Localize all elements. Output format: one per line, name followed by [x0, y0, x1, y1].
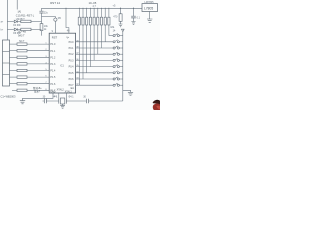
resistor RP1.9 — [108, 8, 110, 35]
resistor R2 — [17, 49, 49, 52]
wire input row 1 — [7, 21, 13, 23]
wire P0 row 2 — [76, 47, 113, 49]
wire P0 row 3 — [76, 53, 113, 55]
capacitor C7 0.1u — [131, 8, 140, 25]
resistor R1 — [17, 43, 49, 46]
svg-text:RST 14: RST 14 — [50, 1, 60, 5]
wire reset node — [42, 15, 56, 17]
svg-text:9: 9 — [52, 31, 54, 33]
wire P1.5 row — [10, 76, 17, 78]
svg-text:D5: D5 — [58, 17, 62, 20]
svg-text:P0.3: P0.3 — [69, 59, 75, 62]
svg-text:a+: a+ — [1, 22, 4, 24]
ground under crystal — [60, 104, 65, 108]
svg-text:P1.5: P1.5 — [50, 76, 56, 79]
svg-text:EA: EA — [71, 87, 75, 90]
svg-text:D4 ΦΦ: D4 ΦΦ — [13, 24, 20, 27]
switch S2 — [113, 40, 123, 43]
wire +5V rail — [42, 7, 143, 9]
wire input row 2 — [7, 29, 13, 31]
svg-text:RST: RST — [52, 36, 58, 40]
switch S1 — [113, 34, 123, 37]
wire left input line — [6, 0, 8, 40]
wire P0 row 5 — [76, 66, 113, 68]
capacitor C6 electrolytic — [113, 8, 122, 27]
resistor RP1.8 — [104, 8, 106, 42]
voltage regulator U2 7805 — [142, 4, 158, 12]
wire P0 row 6 — [76, 72, 113, 74]
svg-text:P0.2: P0.2 — [69, 53, 75, 56]
node common top symbol — [121, 29, 124, 32]
diode D4 — [13, 20, 21, 27]
switch S9 — [113, 83, 123, 86]
ground left — [20, 98, 25, 104]
resistor R12 — [21, 28, 42, 31]
svg-text:9A3 T: 9A3 T — [18, 34, 25, 37]
svg-text:b+: b+ — [1, 30, 4, 32]
svg-text:P1.6: P1.6 — [50, 83, 56, 86]
switch S7 — [113, 71, 123, 74]
svg-text:IC1: IC1 — [60, 64, 65, 67]
svg-text:P0.6: P0.6 — [69, 78, 75, 81]
wire P1.1 row — [10, 50, 17, 52]
switch S8 — [113, 77, 123, 80]
wire crystal rail — [43, 100, 123, 102]
ground under regulator — [147, 12, 152, 23]
wire P1.3 row — [10, 63, 17, 65]
svg-text:L7805: L7805 — [144, 7, 153, 11]
crystal Y1 — [53, 96, 74, 105]
resistor R7 — [17, 82, 49, 85]
svg-text:40: 40 — [67, 31, 70, 33]
svg-text:P1.3: P1.3 — [50, 63, 56, 66]
svg-text:C1• WB2003: C1• WB2003 — [1, 94, 16, 98]
diode D6 — [13, 28, 21, 35]
svg-text:XTAL2: XTAL2 — [57, 88, 65, 91]
wire P1.4 row — [10, 70, 17, 72]
ground right — [128, 92, 133, 95]
wire P0 row 1 — [76, 41, 113, 43]
svg-text:V•: V• — [66, 36, 69, 40]
capacitor C4 30p — [43, 96, 47, 104]
wire P0 row 8 — [76, 84, 113, 86]
watermark logo — [153, 100, 160, 110]
svg-text:Φ4.1: Φ4.1 — [68, 96, 74, 99]
svg-text:1k: 1k — [44, 28, 47, 31]
resistor R4 — [17, 62, 49, 65]
svg-text:[A]: [A] — [18, 11, 21, 14]
resistor RP1.4 — [89, 8, 91, 66]
wire switch common line — [122, 32, 124, 101]
svg-text:XTAL1: XTAL1 — [65, 90, 73, 93]
resistor R11 — [21, 20, 42, 23]
switch S6 — [113, 65, 123, 68]
svg-text:GND: GND — [50, 90, 56, 93]
svg-text:14·: 14· — [113, 29, 117, 32]
capacitor C5 30p — [83, 96, 88, 104]
resistor R5 — [17, 69, 49, 72]
MCU U1 89C51 — [49, 33, 79, 93]
svg-text:基本?: 基本? — [34, 89, 41, 93]
wire Vcc pin 40 stub — [65, 8, 70, 34]
wire P0 row 4 — [76, 59, 113, 61]
resistor R10 — [40, 24, 48, 36]
svg-text:P0.5: P0.5 — [69, 72, 75, 75]
resistor RP1.1 — [78, 8, 80, 85]
wire XTAL stubs — [59, 93, 67, 98]
switch S4 — [113, 52, 123, 55]
wire P1.0 row — [10, 43, 17, 45]
svg-text:SD–4B: SD–4B — [18, 31, 26, 34]
svg-text:22u: 22u — [44, 12, 49, 15]
resistor RP1.3 — [86, 8, 88, 73]
svg-text:P0.1: P0.1 — [69, 47, 75, 50]
svg-text:P1.2: P1.2 — [50, 56, 56, 59]
switch S5 — [113, 58, 123, 61]
resistor R3 — [17, 56, 49, 59]
pushbutton S0 — [54, 16, 62, 33]
switch S3 — [113, 46, 123, 49]
wire common to ground — [123, 90, 131, 92]
svg-text:30: 30 — [83, 96, 86, 99]
svg-text:470: 470 — [113, 16, 118, 19]
svg-text:LM7805: LM7805 — [145, 1, 155, 4]
wire P0 row 7 — [76, 78, 113, 80]
svg-text:•4·1: •4·1 — [53, 96, 58, 99]
svg-text:4.7: 4.7 — [93, 5, 97, 8]
svg-text:P1.0: P1.0 — [50, 43, 56, 46]
resistor RP1.2 — [82, 8, 84, 79]
svg-text:0.1: 0.1 — [137, 17, 141, 20]
svg-text:P0.4: P0.4 — [69, 66, 75, 69]
wire P1.2 row — [10, 56, 17, 58]
resistor RP1.6 — [97, 8, 99, 54]
node rail junctions — [79, 8, 110, 9]
wire P1.6 row — [10, 83, 17, 85]
wire GND pin to ground — [23, 93, 54, 98]
resistor RP1.7 — [100, 8, 102, 48]
resistor RP1.5 — [93, 8, 95, 60]
wire P0 row 0 — [109, 35, 113, 37]
svg-text:+5: +5 — [113, 4, 116, 7]
svg-text:P1.4: P1.4 — [50, 70, 56, 73]
resistor R6 — [17, 76, 49, 79]
wire P1.7 row — [12, 89, 17, 91]
connector J1 — [3, 40, 10, 86]
resistor R8 — [17, 89, 49, 92]
capacitor C11 — [39, 8, 48, 23]
svg-text:P1.1: P1.1 — [50, 50, 56, 53]
svg-text:SD·T: SD·T — [19, 40, 25, 43]
svg-text:P0.0: P0.0 — [69, 41, 75, 44]
wire second input line — [16, 0, 18, 10]
